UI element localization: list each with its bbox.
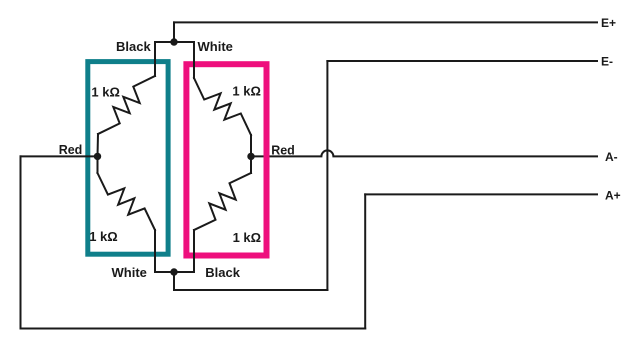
wire bottom node bar: [155, 271, 194, 273]
wire E+ riser: [173, 22, 175, 42]
resistor R3 1 kOhm (top right): [194, 78, 251, 135]
svg-text:Black: Black: [205, 265, 240, 280]
wire R3 to right node: [250, 135, 252, 156]
resistor R4 1 kOhm (bottom right): [194, 173, 251, 230]
wire right node down: [250, 156, 252, 173]
bridge highlight box left (teal): [88, 62, 168, 255]
wire top node bar: [155, 41, 194, 43]
wire E- horizontal to terminal: [327, 60, 597, 62]
svg-text:A+: A+: [605, 188, 621, 202]
svg-text:1 kΩ: 1 kΩ: [89, 229, 118, 244]
svg-text:Red: Red: [271, 144, 295, 158]
wire A+ left vertical: [20, 156, 22, 328]
wire A+ horizontal to terminal: [365, 193, 597, 195]
wire left node down: [97, 156, 99, 173]
svg-text:A-: A-: [605, 150, 618, 164]
wire E- vertical: [326, 61, 328, 290]
svg-text:White: White: [198, 39, 233, 54]
resistor R2 1 kOhm (bottom left): [98, 173, 156, 230]
wire right leg top vertical: [193, 42, 195, 78]
wire E- bottom horizontal: [174, 289, 327, 291]
wire A- with hop over E- vertical: [251, 150, 597, 156]
junction dot top node: [170, 38, 177, 45]
wire E+ horizontal: [174, 21, 597, 23]
svg-text:E-: E-: [601, 55, 613, 69]
svg-text:1 kΩ: 1 kΩ: [232, 83, 261, 98]
wire A+ bottom horizontal: [21, 328, 366, 330]
svg-text:White: White: [112, 265, 147, 280]
junction dot left node: [94, 153, 101, 160]
wire A+ right vertical: [364, 194, 366, 328]
svg-text:Black: Black: [116, 39, 151, 54]
junction dot bottom node: [170, 268, 177, 275]
svg-text:E+: E+: [601, 16, 616, 30]
wire R4 to bottom bar: [193, 230, 195, 272]
resistor R1 1 kOhm (top left): [98, 76, 155, 134]
svg-text:1 kΩ: 1 kΩ: [91, 85, 120, 100]
wire R2 to bottom bar: [154, 230, 156, 272]
svg-text:1 kΩ: 1 kΩ: [233, 230, 262, 245]
wire R1 to left node: [97, 134, 100, 156]
bridge highlight box right (pink): [186, 64, 266, 255]
wire E- from bottom node down: [173, 272, 175, 290]
svg-text:Red: Red: [59, 143, 83, 157]
wire left leg top vertical: [154, 42, 156, 76]
wire left node horizontal: [21, 155, 98, 157]
junction dot right node: [247, 153, 254, 160]
